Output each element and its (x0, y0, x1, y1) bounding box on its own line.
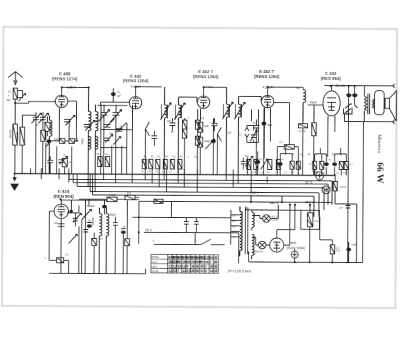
IFT2 support lines (223, 104, 241, 118)
electrolytic cap 4uF b (322, 186, 330, 194)
resistor row C5 (276, 160, 280, 170)
resistor 2000 left (41, 130, 46, 141)
audio cap 60pF (121, 229, 126, 234)
gang trimmer d (113, 137, 121, 145)
grid chain box L2 (57, 258, 64, 263)
wire antenna to V1 grid (15, 101, 55, 103)
bus wire 4 (77, 174, 324, 210)
trimmer cap T2 (58, 156, 68, 164)
audio trimmer arrow (82, 209, 92, 219)
band trimmer T1 (31, 112, 41, 174)
resistor screen V1 (horizontal) (69, 139, 74, 144)
wire 30000 to bus (14, 145, 16, 173)
wire 10000 (22, 115, 35, 174)
wire cap power (294, 249, 296, 262)
cap bead a (346, 86, 351, 114)
svg-text:µµF: µµF (117, 96, 122, 98)
svg-text:4 µF: 4 µF (329, 185, 335, 189)
resistor row B4 (163, 159, 167, 169)
svg-text:14: 14 (210, 269, 214, 273)
wire resistor V1 row (50, 135, 78, 174)
svg-text:(RENS 1264): (RENS 1264) (254, 74, 280, 79)
svg-text:0,2 4W: 0,2 4W (298, 131, 306, 133)
IFT1 primary tuning arrow (160, 103, 171, 120)
speaker top terminal (392, 83, 395, 88)
B+ rail 380V (139, 201, 332, 202)
resistor 30 (195, 136, 200, 145)
wire rail stubs (231, 206, 246, 210)
gang capacitor section B (110, 105, 121, 175)
wire V6 plate right (67, 205, 79, 213)
grid chain V6 (49, 211, 57, 260)
row D group 2 (315, 148, 327, 176)
row D group 3 (335, 148, 347, 176)
svg-text:(REN 904): (REN 904) (53, 194, 74, 199)
wire det drops (248, 109, 258, 175)
audio bottom bus (49, 268, 146, 274)
svg-text:4 µF: 4 µF (312, 169, 318, 173)
bead cap osc grid (111, 93, 115, 96)
resistor row B3 (156, 159, 160, 169)
mains transformer LT winding (252, 234, 255, 259)
svg-text:60: 60 (196, 269, 200, 273)
svg-text:80: 80 (196, 265, 200, 269)
wire V1 cathode drop (58, 108, 60, 135)
osc coil primary 3500 (88, 88, 91, 175)
svg-text:1 MΩ: 1 MΩ (109, 193, 116, 197)
wire V3 cathode (199, 109, 201, 121)
resistor series audio (154, 199, 163, 203)
svg-text:µµF: µµF (227, 132, 232, 134)
svg-text:64: 64 (210, 256, 214, 260)
resistor row B6 (178, 160, 182, 170)
svg-text:(RENS 1204): (RENS 1204) (123, 78, 149, 83)
svg-text:4 µF: 4 µF (351, 243, 357, 247)
mid switch a (145, 122, 149, 175)
svg-text:3000: 3000 (54, 139, 60, 141)
tube V2 E442 envelope (129, 97, 141, 109)
svg-text:145: 145 (232, 220, 237, 223)
svg-text:380 V: 380 V (269, 201, 279, 205)
wire mid drops (112, 123, 127, 175)
osc coil secondary (95, 105, 98, 175)
IF transformer 1 secondary (178, 97, 181, 175)
wire L2 (320, 217, 333, 263)
resistor 1M horizontal (107, 197, 117, 202)
voltage table (151, 254, 219, 273)
tube V6 electrodes (57, 205, 64, 217)
resistor 500 under V3 (198, 122, 203, 132)
antenna shunt loop (17, 91, 25, 102)
row D group 1 (280, 146, 292, 176)
svg-text:38: 38 (214, 269, 218, 273)
svg-text:Minerva: Minerva (376, 134, 382, 154)
audio wire 3 (144, 232, 239, 263)
input trimmer a (64, 115, 75, 125)
audio wire 2 (132, 201, 231, 245)
V4 grid coupling wire (274, 103, 290, 145)
resistor mid 184b (182, 129, 187, 138)
wire grid V2 (98, 88, 130, 105)
cap 4uF on speaker line (345, 205, 350, 208)
audio trimmer arrow 2 (73, 213, 82, 222)
svg-text:1805: 1805 (289, 241, 297, 245)
resistor row B1 (142, 159, 146, 169)
svg-text:88: 88 (214, 265, 218, 269)
svg-text:Ua V: Ua V (152, 260, 158, 264)
IFT2 secondary arrow (234, 102, 245, 119)
svg-text:5000: 5000 (314, 221, 320, 223)
svg-text:18: 18 (205, 260, 209, 264)
bus wire 3 (73, 174, 328, 205)
gang capacitor section A (98, 105, 109, 175)
input box 45 (45, 122, 50, 131)
gang bracket wires (101, 105, 133, 175)
tube V5 C442 envelope (323, 91, 340, 116)
audio section V6 wiring (61, 200, 107, 211)
output transformer primary (364, 86, 367, 122)
tube V6 E424 envelope (54, 204, 68, 218)
band filter coil 1 (49, 115, 52, 174)
wire V4 cathode (264, 108, 270, 159)
rectifier V7 1805 envelope (270, 238, 284, 252)
resistor 0,2 horizontal under coil (298, 124, 307, 128)
svg-text:0,1: 0,1 (127, 191, 132, 195)
tube V2 electrodes (132, 97, 139, 109)
resistor AVC 198 (195, 120, 200, 129)
output transformer secondary (372, 99, 374, 108)
svg-text:86: 86 (177, 260, 181, 264)
tube V1 E488 envelope (55, 95, 67, 107)
svg-text:90: 90 (200, 260, 204, 264)
resistor 0,1 horizontal (125, 195, 135, 200)
wire V2 anode top (136, 87, 162, 96)
chain junction dot (70, 210, 72, 212)
svg-text:(RENS 1264): (RENS 1264) (193, 74, 219, 79)
resistor field 5k (307, 213, 313, 227)
resistor row C4 (268, 160, 272, 170)
resistor AVC 184 (182, 120, 187, 129)
wire V2 cathode (131, 109, 133, 174)
svg-text:ZF=128,5 kHz: ZF=128,5 kHz (227, 269, 252, 273)
svg-text:Ug V: Ug V (152, 264, 158, 268)
V1 anode top wire (62, 87, 89, 94)
svg-text:4 Ω: 4 Ω (336, 248, 340, 252)
tube V4 E452T envelope (261, 95, 273, 107)
tube V3 electrodes (200, 96, 207, 108)
power bottom bus (249, 121, 364, 263)
wire det left (212, 118, 214, 174)
bead cap det low (256, 160, 260, 163)
gang trimmer c (104, 135, 113, 143)
svg-text:45: 45 (187, 260, 191, 264)
electrolytic cap 4uF a (316, 172, 324, 180)
audio cap small (87, 222, 92, 227)
IFT2 primary arrow (222, 102, 233, 119)
audio wire extra (78, 226, 80, 273)
speaker top wire (324, 85, 392, 91)
svg-text:4µ/500: 4µ/500 (340, 186, 348, 188)
mid switch b (217, 127, 221, 175)
resistor grid leak V5 (312, 123, 317, 136)
svg-text:Röhre: Röhre (152, 255, 160, 259)
audio wire 4 with mains switch (154, 239, 225, 245)
svg-text:50: 50 (345, 110, 349, 114)
bus wire 6 (92, 174, 314, 217)
bead cap under V4 (262, 122, 266, 125)
resistor 0,3 horizontal (284, 145, 294, 150)
tube V4 electrodes (264, 95, 271, 107)
mid cap b (211, 118, 217, 131)
svg-text:22: 22 (200, 269, 204, 273)
audio cap 50pF (113, 217, 118, 274)
capacitor row C0 (241, 157, 246, 169)
svg-text:78 V: 78 V (145, 228, 153, 232)
IF transformer 2 secondary (238, 96, 241, 175)
resistor 10000 vertical (20, 127, 25, 145)
svg-text:30000: 30000 (8, 130, 12, 139)
cap bead b (353, 86, 358, 105)
svg-text:Ia mA: Ia mA (152, 269, 159, 273)
resistor 1/4 block (62, 158, 67, 167)
cap at 256 (253, 119, 259, 175)
rail 380V secondary (246, 209, 320, 211)
brand text Minerva 66 W (374, 134, 384, 184)
wire V5 grid left (307, 105, 323, 123)
svg-text:90: 90 (214, 256, 218, 260)
mains taps (231, 215, 240, 245)
main ground bus wire (14, 174, 336, 176)
cap 4uF power (291, 251, 298, 258)
IFT1 padding caps (169, 118, 175, 131)
trimmer pair mid (103, 119, 114, 128)
osc coil lower winding (88, 136, 98, 149)
resistor row C1 (247, 159, 251, 169)
rectifier V7 electrodes (273, 242, 280, 251)
svg-text:4µF: 4µF (339, 207, 343, 209)
volume control arrow V3 (205, 139, 215, 149)
trimmer row C3 (261, 159, 268, 169)
speaker bottom terminal (391, 119, 394, 124)
svg-text:30µF: 30µF (267, 125, 273, 127)
field coil enclosure (301, 210, 320, 229)
resistor under V1 (horizontal) (60, 139, 65, 144)
resistor 2000 under V3 (198, 137, 203, 147)
audio resistor box a (92, 239, 97, 246)
svg-text:30µµF: 30µµF (310, 100, 318, 104)
audio low trimmer (69, 234, 78, 243)
switch Y det (245, 127, 249, 137)
pilot lamp 1 (263, 215, 271, 223)
svg-text:50000: 50000 (91, 217, 95, 226)
wire det resistor (277, 147, 298, 176)
svg-text:(RENS 1274): (RENS 1274) (52, 76, 78, 81)
IFT1 support lines (161, 104, 181, 118)
audio coupling cap a (184, 218, 189, 233)
svg-text:3500: 3500 (80, 138, 84, 145)
bus tick (31, 168, 65, 174)
svg-text:28: 28 (191, 265, 195, 269)
audio resistor box b (125, 239, 130, 246)
bead cap det left (211, 140, 215, 143)
audio cap extra b (83, 229, 88, 232)
wire V3 anode top (204, 87, 227, 95)
resistor 1/4 small2 (105, 157, 110, 167)
power wiring (252, 204, 295, 245)
wire audio top run (79, 197, 139, 206)
svg-text:2µF: 2µF (54, 223, 59, 225)
staggered bus verticals (41, 168, 251, 192)
resistor row B2 (149, 159, 153, 169)
IF transformer 1 primary (164, 87, 167, 175)
wire screen V1 (68, 120, 70, 138)
cap 4uF bead (347, 245, 351, 263)
svg-text:(RES 964): (RES 964) (321, 76, 342, 81)
tube V5 electrodes (327, 98, 336, 121)
wire IFT1 to V3 grid (179, 97, 197, 102)
audio vertical drops (61, 200, 128, 274)
wire speaker area drops (344, 105, 358, 263)
audio coil 2 (106, 208, 109, 274)
svg-text:45: 45 (200, 265, 204, 269)
wire field resistor (309, 205, 311, 262)
resistor 336 (333, 181, 337, 191)
trimmer det (250, 130, 257, 141)
speaker cone (385, 91, 396, 122)
ground at bus left (11, 174, 18, 191)
svg-text:80: 80 (214, 260, 218, 264)
wire grid leak drop (313, 105, 315, 175)
cap 2uF under V6 (58, 224, 65, 227)
table text (152, 255, 218, 273)
svg-text:66 W: 66 W (374, 162, 384, 184)
svg-text:125: 125 (232, 225, 237, 228)
svg-text:4,5/0,3 A: 4,5/0,3 A (253, 249, 264, 253)
audio coupling cap b (194, 218, 199, 233)
svg-text:220: 220 (232, 214, 237, 217)
resistor row B5 (170, 159, 174, 169)
IF transformer 2 primary (226, 87, 229, 175)
resistor L2 4ohm (330, 245, 335, 254)
svg-text:500: 500 (204, 124, 209, 128)
resistor 30000 vertical (13, 124, 18, 145)
wire under V3 (199, 132, 201, 174)
audio cap extra a (73, 212, 78, 226)
antenna coupling resistor 0,5 (13, 88, 17, 99)
tube V3 E452T envelope (197, 96, 209, 108)
wire IFT2 to V4 grid (239, 96, 262, 101)
cap 50 under V1 (47, 156, 53, 174)
svg-text:2000: 2000 (204, 139, 211, 143)
svg-text:10000: 10000 (16, 132, 20, 141)
IFT1 secondary tuning arrow (174, 103, 185, 120)
electro bead V1 (47, 140, 51, 143)
output transformer core (368, 94, 370, 115)
bus wire 5 (90, 174, 319, 217)
resistor 50 small (98, 157, 103, 167)
jack component 50 (343, 104, 352, 114)
lower trimmer det (245, 156, 253, 166)
svg-text:(RGN 1064): (RGN 1064) (287, 246, 305, 250)
wire resistor 2000 (42, 141, 44, 173)
pilot lamp 2 (258, 241, 266, 249)
detector coil 500 (303, 90, 306, 124)
svg-text:500µF: 500µF (87, 204, 95, 208)
svg-text:26: 26 (191, 269, 195, 273)
speaker bottom wire (344, 120, 391, 122)
mains transformer HT winding (252, 209, 255, 230)
wire B+ drops right section (251, 176, 282, 202)
svg-text:50pF: 50pF (110, 213, 117, 217)
wire V4 anode top (268, 87, 304, 95)
det bracket (247, 109, 259, 142)
audio coil 50000 (99, 208, 102, 274)
wire V5 cathode down (328, 120, 335, 157)
V1 plate side wire (68, 101, 77, 141)
V1 grid left wire (53, 100, 54, 102)
wire drops IFT1 area (184, 109, 197, 175)
bus wire 2 (69, 174, 332, 205)
cap bead audio (102, 200, 106, 214)
band trimmer T2 (38, 112, 48, 130)
mid cap a (151, 131, 157, 146)
speaker magnet frame (374, 91, 384, 115)
wire hum cap top (348, 242, 350, 245)
svg-text:36: 36 (210, 265, 214, 269)
wire antenna down (14, 99, 16, 124)
tube V1 electrodes (58, 95, 65, 107)
resistor row C2 (254, 159, 258, 169)
svg-text:0,3 A: 0,3 A (271, 218, 277, 222)
input trimmer b (84, 120, 95, 130)
antenna (8, 72, 23, 85)
mains transformer core (245, 207, 248, 254)
svg-text:41 V: 41 V (305, 181, 313, 185)
trimmer pair mid2 (115, 123, 126, 132)
mains transformer primary winding (240, 206, 243, 256)
